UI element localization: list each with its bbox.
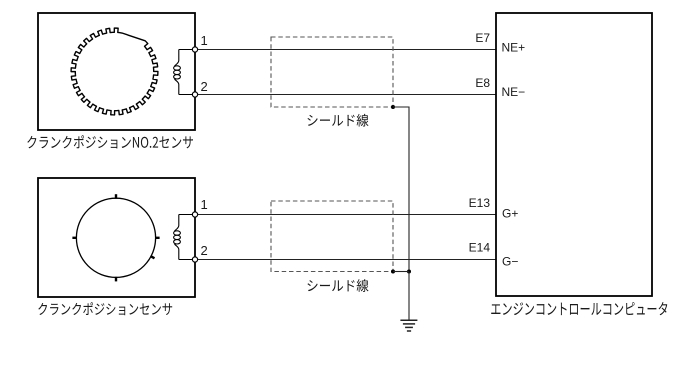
wire NE+ : sensor1 pin1 to ECU E7 (198, 49, 496, 51)
junction dot on ground bus (407, 270, 411, 274)
wire G+ : sensor2 pin1 to ECU E13 (198, 214, 496, 216)
svg-text:2: 2 (201, 79, 208, 94)
pickup coil L1 (top sensor) (174, 50, 193, 95)
sensor box: crank position sensor (38, 178, 195, 297)
label: crank position sensor (38, 302, 172, 315)
ground symbol (400, 320, 417, 331)
sensor box: crank position NO.2 sensor (38, 13, 195, 130)
ground bus wire down to earth (408, 272, 410, 321)
reluctor gear wheel with missing-tooth gap (71, 28, 158, 115)
wire NE- : sensor1 pin2 to ECU E8 (198, 94, 496, 96)
label: shield wire (top) (307, 114, 368, 127)
svg-text:2: 2 (201, 243, 208, 258)
svg-text:E14: E14 (469, 241, 491, 255)
rotor tick at 90 deg (115, 277, 117, 282)
shield (dashed) around G wires (271, 201, 393, 272)
shield drain wire: bottom shield to ground bus (393, 271, 409, 273)
signal rotor circle with timing ticks (76, 198, 155, 277)
pickup coil L2 (bottom sensor) (174, 215, 193, 260)
svg-text:1: 1 (201, 33, 208, 48)
svg-text:G−: G− (502, 254, 518, 268)
rotor tick at 270 deg (115, 194, 117, 199)
terminal pin 1 (bottom sensor) (192, 212, 197, 217)
svg-text:G+: G+ (502, 207, 518, 221)
ECU box: engine control computer (496, 13, 652, 296)
svg-text:1: 1 (201, 197, 208, 212)
shield (dashed) around NE wires (271, 37, 393, 107)
label: shield wire (bottom) (307, 279, 368, 292)
label: crank position NO.2 sensor (27, 135, 193, 148)
wire G- : sensor2 pin2 to ECU E14 (198, 259, 496, 261)
label: engine control computer (491, 302, 667, 315)
shield drain junction dot (bottom shield) (391, 270, 395, 274)
shield drain junction dot (top shield) (391, 105, 395, 109)
svg-text:E7: E7 (475, 31, 490, 45)
terminal pin 2 (top sensor) (192, 92, 197, 97)
rotor tick at 28 deg (150, 256, 154, 258)
svg-text:E13: E13 (469, 196, 491, 210)
shield drain wire: top shield to ground bus (393, 107, 409, 272)
terminal pin 2 (bottom sensor) (192, 257, 197, 262)
rotor tick at 180 deg (72, 237, 77, 239)
svg-text:E8: E8 (475, 76, 490, 90)
terminal pin 1 (top sensor) (192, 47, 197, 52)
rotor tick at 0 deg (155, 237, 160, 239)
svg-text:NE−: NE− (502, 85, 526, 99)
svg-text:NE+: NE+ (502, 41, 526, 55)
